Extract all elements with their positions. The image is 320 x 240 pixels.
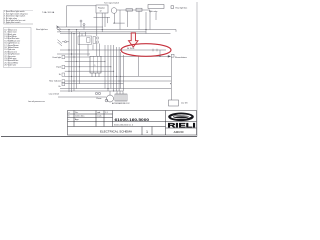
legend box 2 (wire colours) xyxy=(4,28,32,68)
svg-text:Low oil pressure sw.: Low oil pressure sw. xyxy=(28,100,45,103)
svg-text:ELECTRICAL SCHEMA: ELECTRICAL SCHEMA xyxy=(100,130,132,134)
connector chevron J2 xyxy=(58,40,70,46)
starter motor M1 xyxy=(105,91,113,102)
bus wire H3 xyxy=(57,31,146,33)
wire center drop d xyxy=(99,44,101,57)
wire top left L xyxy=(67,6,97,27)
logo oval xyxy=(168,113,194,122)
bus wire H1 xyxy=(57,26,103,28)
tick end of bus xyxy=(175,30,177,32)
key switch small circles xyxy=(95,92,97,94)
fuse F1 xyxy=(80,20,82,22)
page border right xyxy=(196,2,198,137)
right horizontals xyxy=(138,56,140,76)
tick in ellipse 2 xyxy=(156,49,158,52)
bus wire H4 xyxy=(60,33,171,35)
vertical bus wires left xyxy=(69,30,79,93)
svg-text:RIELI: RIELI xyxy=(168,122,196,129)
svg-text:c: c xyxy=(69,119,70,121)
wire h17 xyxy=(94,16,111,18)
relay box K2 xyxy=(78,36,98,44)
wire drop4 xyxy=(119,10,121,30)
rear light box icon xyxy=(171,6,174,9)
wire drop3 xyxy=(149,10,151,30)
title block small texts xyxy=(69,112,134,126)
battery drops xyxy=(117,91,123,94)
svg-text:Rear indicator: Rear indicator xyxy=(49,80,61,83)
svg-text:Imput: Imput xyxy=(56,66,61,69)
red block arrow annotation xyxy=(129,33,139,47)
left connector labels xyxy=(49,55,65,95)
central control box U2 xyxy=(90,56,101,73)
svg-text:Rear light box: Rear light box xyxy=(36,28,48,31)
ladder wires left xyxy=(58,57,171,97)
junction dots xyxy=(69,23,171,92)
wire top row xyxy=(117,9,150,11)
right vertical bus xyxy=(105,45,171,100)
svg-text:Regulat.: Regulat. xyxy=(98,7,106,10)
svg-text:12: 12 xyxy=(100,10,102,12)
svg-text:Contr. data: Contr. data xyxy=(75,115,85,118)
wire through ellipse node xyxy=(60,49,166,51)
svg-text:Turn signal switch: Turn signal switch xyxy=(104,2,119,5)
fuse F3 xyxy=(126,9,133,11)
regulator box U1 xyxy=(96,5,108,13)
split relay K1 xyxy=(148,5,164,21)
connector icon xyxy=(171,54,174,57)
svg-text:Low oil level: Low oil level xyxy=(49,93,60,95)
relay box K3 xyxy=(136,8,142,11)
wire drop from regulator to box U2 xyxy=(96,13,98,36)
wire drop xyxy=(127,11,129,27)
wire center drop c xyxy=(92,44,94,50)
svg-text:Front light: Front light xyxy=(53,56,62,59)
svg-text:App.: App. xyxy=(75,118,79,121)
svg-text:Rimorchiatore: Rimorchiatore xyxy=(175,56,187,59)
wire H mid xyxy=(57,53,90,55)
svg-text:1: 1 xyxy=(146,130,148,134)
red ellipse annotation xyxy=(121,44,171,57)
wire center drop a xyxy=(85,32,87,36)
svg-text:6. Light plant switch: 6. Light plant switch xyxy=(4,21,21,24)
svg-text:Chave: Chave xyxy=(96,98,101,100)
svg-text:ALTERNATORE 12V: ALTERNATORE 12V xyxy=(112,102,130,105)
svg-text:7 GA / J01 GA: 7 GA / J01 GA xyxy=(42,11,55,14)
wire v stub xyxy=(107,17,109,23)
svg-text:b: b xyxy=(69,116,70,118)
svg-text:30 15/54: 30 15/54 xyxy=(127,48,134,50)
svg-text:26. Violet wire: 26. Violet wire xyxy=(4,64,16,67)
title block xyxy=(68,111,197,136)
arrow rimorchiatore xyxy=(168,55,171,57)
wire center drop e xyxy=(81,34,83,37)
wire under horn xyxy=(113,13,115,23)
bus wire H2 xyxy=(57,29,176,31)
svg-text:cod.: cod. xyxy=(97,112,101,114)
wire h23 xyxy=(113,22,125,24)
connector chevron J1 xyxy=(57,26,62,33)
wire split down xyxy=(145,12,147,34)
legend list 1 xyxy=(4,10,34,24)
wire regulator down 2 xyxy=(104,13,106,27)
tick in ellipse xyxy=(152,49,154,52)
svg-text:rear left: rear left xyxy=(181,102,188,105)
svg-text:Split relay: Split relay xyxy=(149,10,157,13)
battery G1 xyxy=(115,94,127,101)
svg-text:Rear light box: Rear light box xyxy=(176,6,188,9)
page border bottom xyxy=(1,136,197,138)
svg-text:61000.160.5000: 61000.160.5000 xyxy=(115,118,150,122)
box pins bottom xyxy=(92,73,99,77)
horn circle H1 xyxy=(111,8,117,14)
fuse F2 xyxy=(83,24,85,26)
svg-text:61000-160-5000 rev. 0: 61000-160-5000 rev. 0 xyxy=(114,123,133,126)
svg-text:A400-50: A400-50 xyxy=(174,130,184,134)
svg-text:Dis.: Dis. xyxy=(75,112,79,114)
svg-text:1:1: 1:1 xyxy=(105,112,108,114)
wire regulator down xyxy=(101,13,103,32)
wire rimorchiatore xyxy=(101,55,163,57)
right bottom connector J3 xyxy=(169,100,179,106)
wire drop2 xyxy=(138,11,140,29)
wire center drop b xyxy=(87,44,89,56)
